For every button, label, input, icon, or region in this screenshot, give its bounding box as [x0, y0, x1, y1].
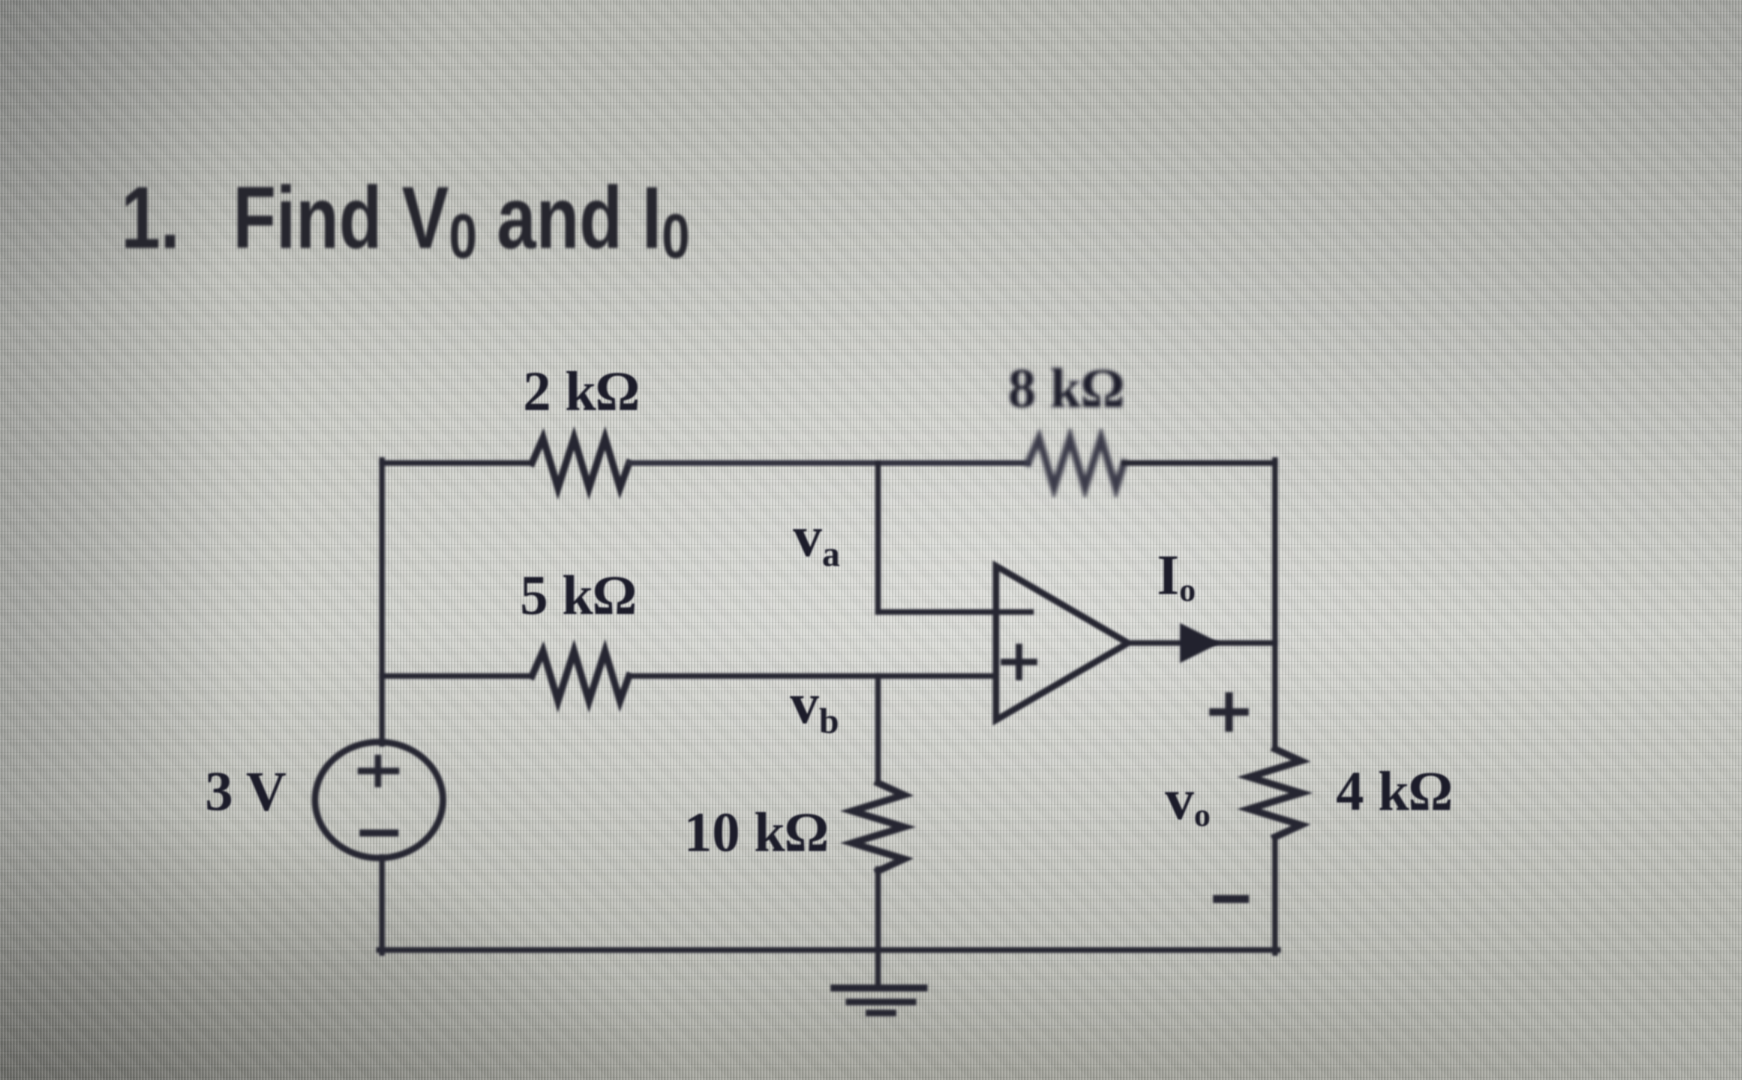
label + of Vo (output polarity)	[1213, 696, 1245, 728]
voltage source plus sign	[361, 758, 396, 784]
svg-text:8 kΩ: 8 kΩ	[1008, 358, 1124, 420]
wire left vertical	[379, 460, 385, 744]
wire top-middle segment	[629, 460, 1028, 466]
wire 10k branch lower	[875, 869, 881, 950]
ground bar 3	[869, 1010, 893, 1017]
voltage source 3V circle	[315, 742, 443, 858]
wire 5k row right segment	[629, 673, 996, 679]
ground bar 2	[849, 999, 913, 1006]
label - of Vo (output polarity)	[1217, 895, 1245, 903]
svg-text:Io: Io	[1157, 544, 1196, 609]
wire top-left segment	[382, 460, 532, 466]
op-amp non-inverting plus sign	[1004, 647, 1034, 677]
resistor 8k zigzag	[1028, 438, 1124, 488]
ground bar 1	[834, 985, 924, 992]
wire 5k row (non-inverting input)	[382, 673, 532, 679]
svg-text:vb: vb	[790, 671, 839, 741]
wire bottom	[379, 947, 1278, 953]
title: 1. Find V0 and I0	[121, 174, 690, 262]
svg-text:va: va	[793, 504, 840, 574]
svg-text:2 kΩ: 2 kΩ	[523, 361, 639, 423]
svg-text:10 kΩ: 10 kΩ	[684, 802, 828, 864]
svg-text:vo: vo	[1165, 767, 1211, 834]
resistor 2k zigzag	[532, 438, 629, 488]
voltage source minus sign	[363, 830, 395, 837]
wire left vertical lower	[379, 857, 385, 953]
svg-text:5 kΩ: 5 kΩ	[520, 565, 636, 627]
wire right vertical upper	[1272, 460, 1278, 643]
wire 4k branch upper	[1272, 643, 1278, 749]
wire node a vertical (to inverting input)	[875, 463, 881, 612]
wire 4k branch lower	[1272, 837, 1278, 953]
wire inverting input	[878, 609, 1031, 615]
current arrow Io	[1180, 623, 1220, 663]
svg-text:4 kΩ: 4 kΩ	[1336, 761, 1452, 823]
wire ground stub	[875, 950, 881, 985]
resistor 5k zigzag	[532, 651, 629, 701]
resistor 10k zigzag	[852, 783, 904, 871]
wire top-right segment	[1124, 460, 1275, 466]
op-amp U1 triangle	[996, 566, 1128, 720]
resistor 4k zigzag	[1249, 749, 1301, 837]
wire op-amp output	[1128, 640, 1275, 646]
wire 10k branch upper	[875, 676, 881, 783]
svg-text:3 V: 3 V	[205, 761, 286, 823]
